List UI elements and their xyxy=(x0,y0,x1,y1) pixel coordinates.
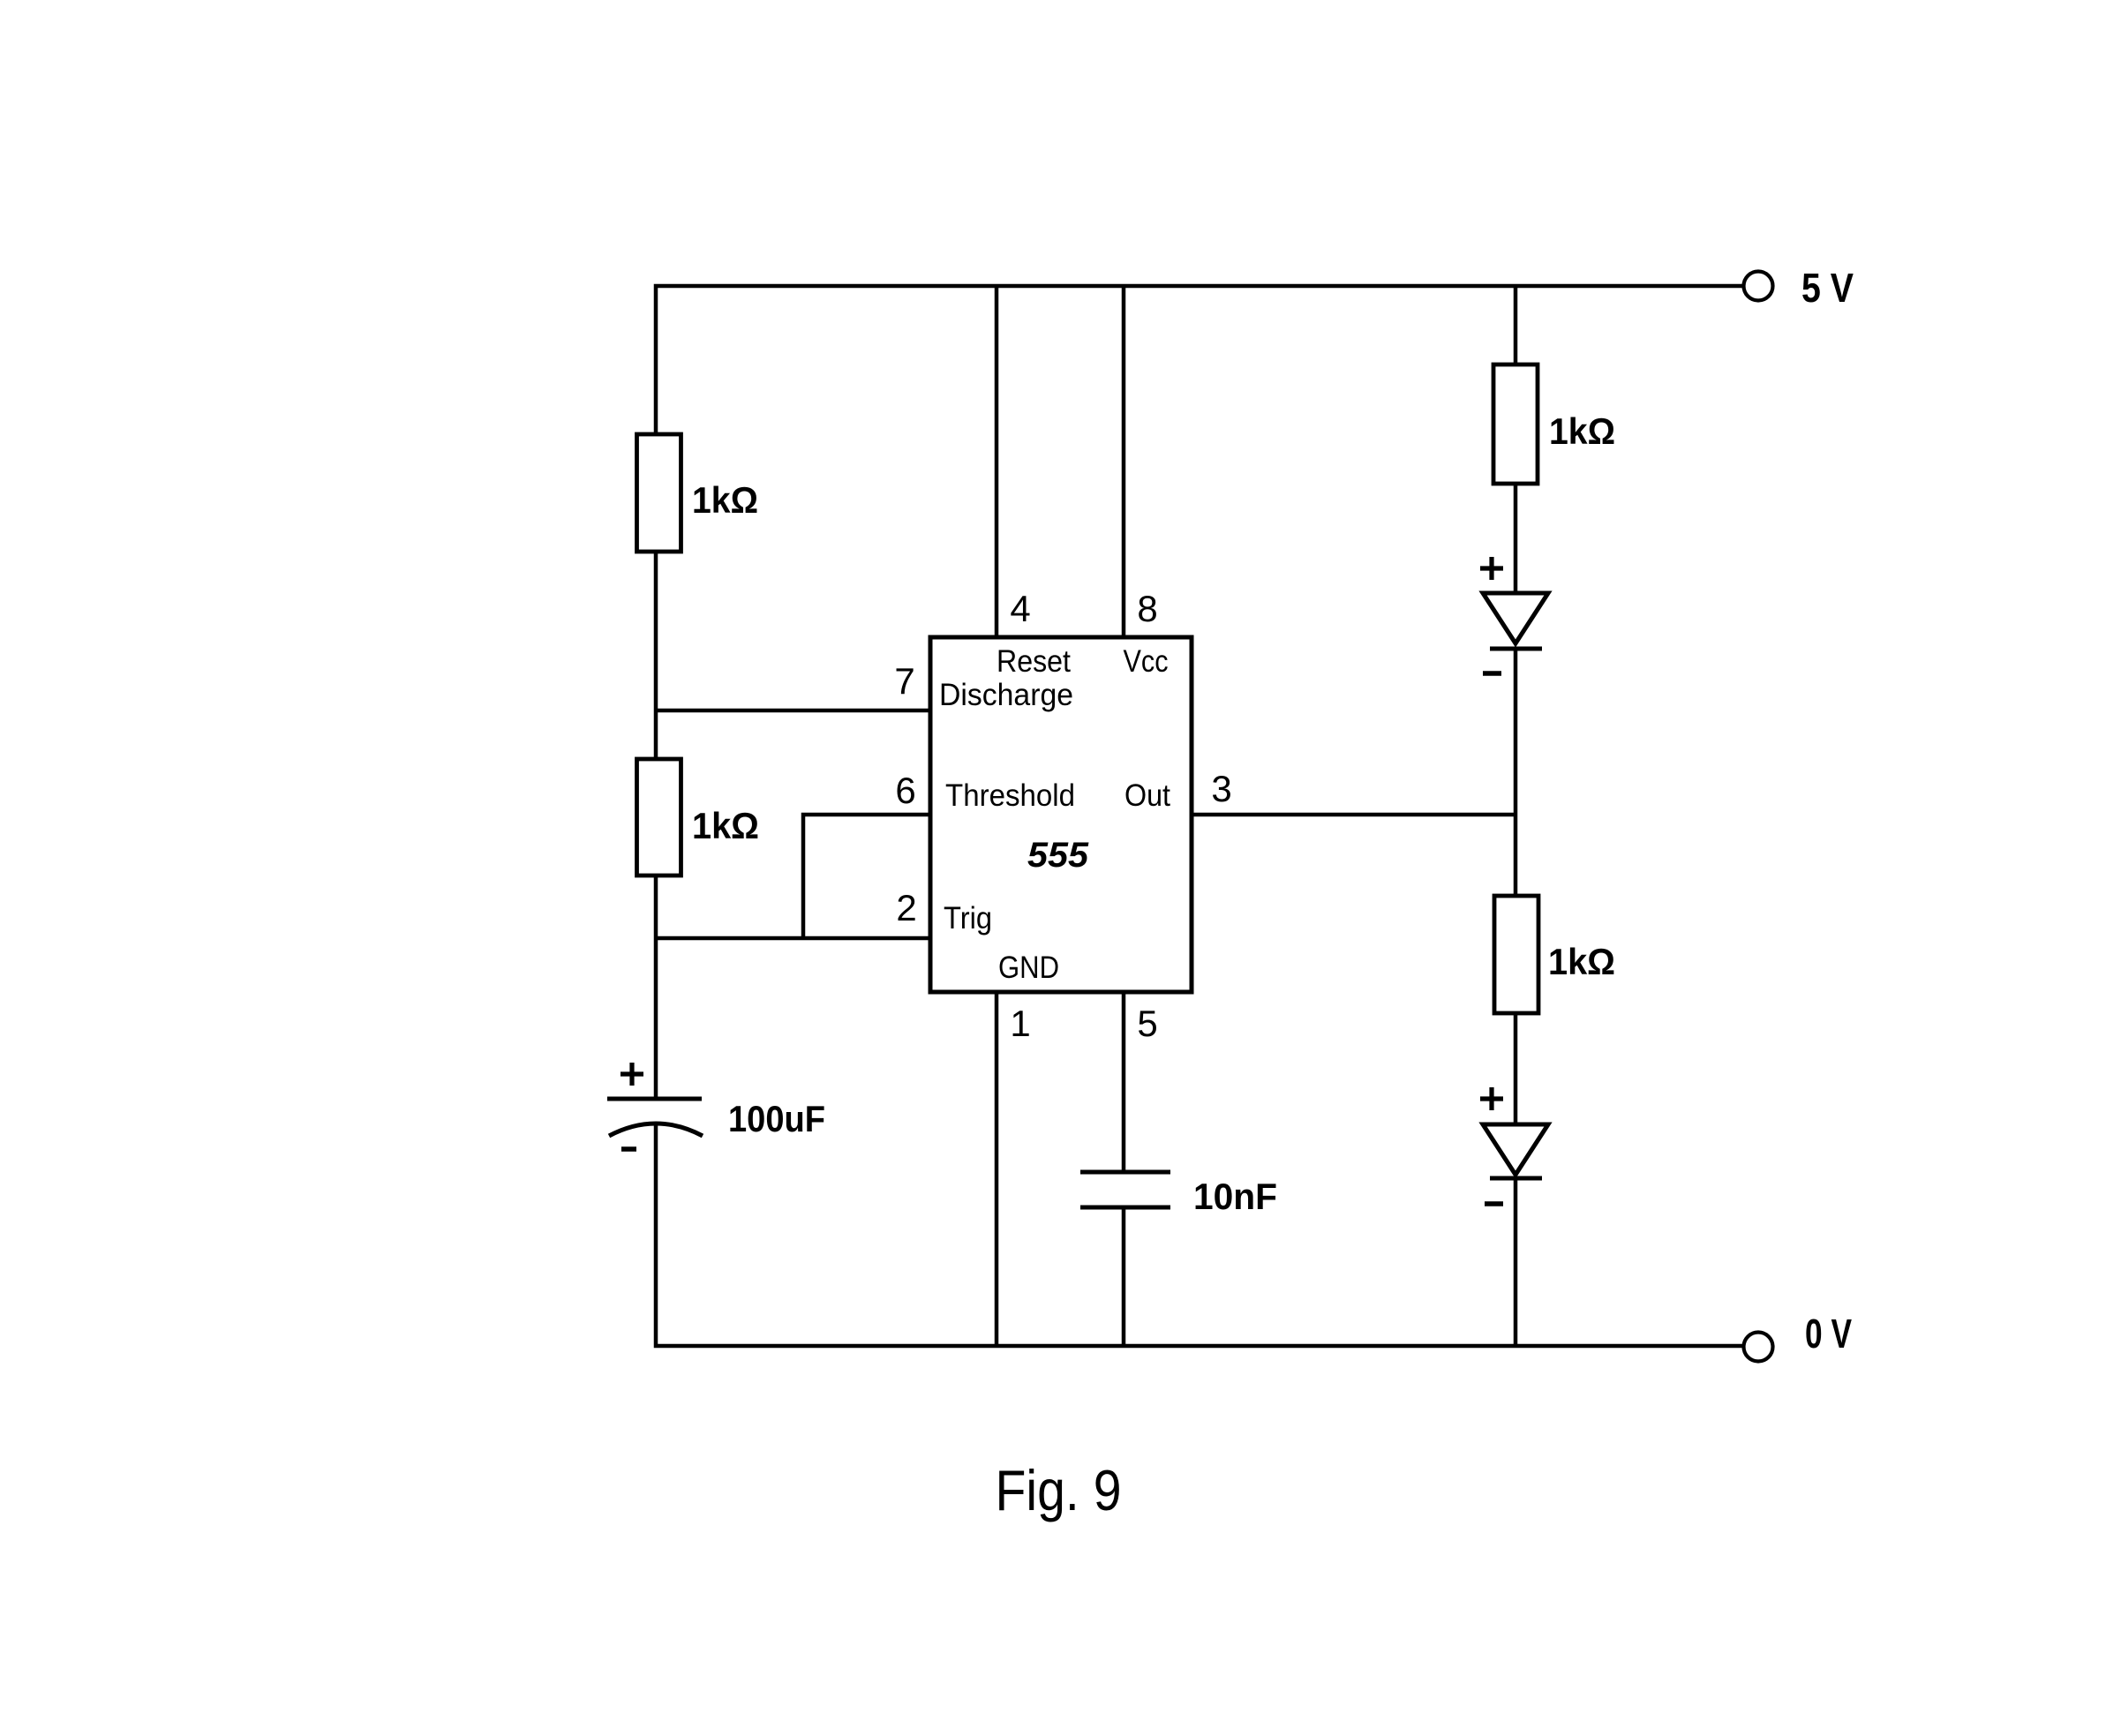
D1 plus sign xyxy=(1480,557,1503,580)
wire pin 3 Out horizontal xyxy=(1193,813,1516,817)
resistor R3 (lower right 1k) xyxy=(1494,896,1538,1013)
svg-text:Threshold: Threshold xyxy=(945,778,1075,813)
svg-text:4: 4 xyxy=(1010,588,1030,629)
diode D1 (LED upper) xyxy=(1483,593,1548,649)
wire pin 8 Vcc vertical xyxy=(1122,286,1126,635)
wire top rail and left vertical drop xyxy=(656,286,1743,434)
capacitor C2 10nF xyxy=(1080,1172,1170,1207)
C1 plus sign xyxy=(621,1063,643,1086)
D2 minus sign xyxy=(1485,1201,1503,1206)
terminal 5 V xyxy=(1744,272,1773,301)
terminal 0 V xyxy=(1744,1333,1773,1362)
svg-text:1kΩ: 1kΩ xyxy=(1549,410,1615,452)
svg-text:1: 1 xyxy=(1010,1003,1030,1044)
svg-text:GND: GND xyxy=(998,951,1059,985)
svg-text:2: 2 xyxy=(896,887,916,928)
C1 minus sign xyxy=(621,1146,636,1152)
wire C1 bottom to bottom rail and bottom rail to 0V terminal xyxy=(656,1124,1744,1346)
wire right column top rail to R2 xyxy=(1514,286,1518,364)
svg-text:1kΩ: 1kΩ xyxy=(692,805,759,846)
resistor R2 (top right 1k) xyxy=(1493,364,1538,484)
svg-text:5 V: 5 V xyxy=(1801,265,1854,311)
wire left vertical R4 bottom to C1 top plate xyxy=(654,876,658,1097)
svg-text:Discharge: Discharge xyxy=(939,678,1073,712)
wire D1 cathode to R3 top (through Out junction) xyxy=(1514,649,1518,896)
wire pin 7 Discharge horizontal xyxy=(656,709,929,713)
wire pin 1 GND vertical xyxy=(995,994,999,1346)
svg-text:555: 555 xyxy=(1027,836,1089,875)
wire left vertical R1 bottom to R4 top xyxy=(654,553,658,757)
svg-text:0 V: 0 V xyxy=(1805,1311,1852,1356)
op-amp/timer IC U1 555 box xyxy=(930,637,1192,992)
resistor R4 (left lower 1k) xyxy=(637,759,681,876)
wire pin 6 Threshold horizontal with vertical jog to Trig wire xyxy=(803,815,929,938)
wire C2 bottom to bottom rail xyxy=(1122,1207,1126,1346)
diode D2 (LED lower) xyxy=(1483,1124,1548,1178)
svg-text:Fig. 9: Fig. 9 xyxy=(996,1458,1122,1522)
wire D2 cathode to bottom rail xyxy=(1514,1178,1518,1346)
svg-text:1kΩ: 1kΩ xyxy=(692,479,758,521)
resistor R1 (top left 1k) xyxy=(637,434,681,552)
D1 minus sign xyxy=(1483,671,1501,676)
wire pin 5 vertical to C2 xyxy=(1122,994,1126,1170)
svg-text:Vcc: Vcc xyxy=(1124,644,1169,679)
D2 plus sign xyxy=(1480,1087,1503,1110)
wire R2 bottom to diode D1 xyxy=(1514,484,1518,595)
capacitor C1 100uF polarized xyxy=(607,1099,703,1136)
svg-text:5: 5 xyxy=(1137,1003,1157,1044)
svg-text:7: 7 xyxy=(894,660,914,702)
svg-text:Reset: Reset xyxy=(997,644,1071,679)
svg-text:100uF: 100uF xyxy=(728,1098,825,1139)
wire pin 4 Reset vertical xyxy=(995,286,999,635)
svg-text:3: 3 xyxy=(1211,768,1231,809)
wire R3 bottom to diode D2 xyxy=(1514,1013,1518,1126)
svg-text:8: 8 xyxy=(1137,588,1157,629)
svg-text:Trig: Trig xyxy=(944,901,992,936)
wire pin 2 Trig horizontal xyxy=(656,936,929,941)
svg-text:10nF: 10nF xyxy=(1193,1176,1277,1217)
svg-text:1kΩ: 1kΩ xyxy=(1548,941,1615,982)
svg-text:Out: Out xyxy=(1124,778,1170,813)
svg-text:6: 6 xyxy=(895,770,915,811)
